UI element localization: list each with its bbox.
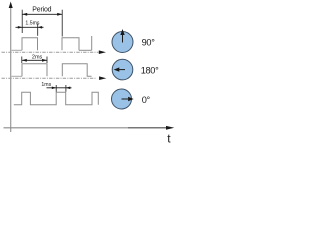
svg-text:1ms: 1ms bbox=[41, 82, 51, 88]
Period dimension left arrowhead bbox=[22, 13, 27, 16]
circle 2 needle shaft bbox=[117, 69, 125, 71]
1ms left tick bbox=[55, 85, 57, 92]
waveform 3 trace bbox=[14, 92, 99, 105]
Period dimension right tick bbox=[61, 10, 63, 37]
servo dial circle 3 (0 deg) bbox=[112, 89, 132, 109]
svg-text:90°: 90° bbox=[142, 38, 156, 48]
2ms dimension line bbox=[22, 59, 47, 61]
waveform 2 pulse 2 bbox=[62, 64, 91, 77]
waveform 1 centre dash-dot line bbox=[2, 51, 99, 53]
x-axis right segment bbox=[128, 127, 167, 129]
x-axis bbox=[4, 127, 129, 129]
circle 1 needle arrowhead bbox=[120, 29, 124, 35]
waveform 1 axis arrowhead bbox=[99, 50, 106, 54]
Period dimension right arrowhead bbox=[57, 13, 62, 16]
2ms dimension left tick bbox=[21, 57, 23, 64]
1.5ms dimension line bbox=[16, 26, 44, 28]
waveform 1 lead-in baseline bbox=[12, 49, 23, 51]
1ms dimension right arrowhead (points left) bbox=[66, 87, 70, 90]
waveform 2 axis arrowhead bbox=[99, 76, 106, 80]
Period dimension left tick bbox=[21, 10, 23, 33]
svg-text:Period: Period bbox=[32, 6, 51, 13]
1.5ms dimension right arrowhead (points left) bbox=[38, 26, 42, 29]
circle 1 needle shaft bbox=[122, 34, 124, 43]
circle 3 needle arrowhead bbox=[128, 97, 134, 101]
servo dial circle 1 (90 deg) bbox=[112, 32, 133, 53]
waveform 2 lead-in baseline bbox=[12, 75, 23, 77]
2ms dimension right tick bbox=[46, 57, 48, 64]
1.5ms dimension left arrowhead (points right) bbox=[18, 26, 22, 29]
1ms dimension line bbox=[47, 87, 72, 89]
servo dial circle 2 (180 deg) bbox=[112, 59, 133, 80]
circle 2 needle arrowhead bbox=[114, 67, 120, 71]
1.5ms right tick bbox=[37, 24, 39, 36]
waveform 1 baseline stub after pulse 2 bbox=[79, 49, 92, 51]
Period dimension line bbox=[22, 13, 62, 15]
y-axis bbox=[10, 6, 12, 132]
waveform 1 partial third pulse rising edge bbox=[91, 36, 93, 50]
y-axis arrowhead bbox=[9, 2, 13, 9]
svg-text:1.5ms: 1.5ms bbox=[25, 20, 40, 26]
2ms dimension left arrowhead bbox=[22, 59, 27, 62]
svg-text:180°: 180° bbox=[141, 65, 159, 75]
waveform 2 pulse 1 (2ms) bbox=[22, 64, 47, 77]
1ms right tick bbox=[65, 85, 67, 92]
2ms dimension right arrowhead bbox=[42, 59, 47, 62]
waveform 1 pulse 2 bbox=[62, 38, 79, 51]
1ms dimension left arrowhead (points right) bbox=[52, 87, 56, 90]
waveform 1 pulse 1 (1.5ms) bbox=[22, 38, 38, 51]
circle 3 needle shaft bbox=[122, 98, 129, 100]
waveform 2 centre dash-dot line bbox=[2, 77, 97, 79]
svg-text:0°: 0° bbox=[142, 95, 151, 105]
svg-text:2ms: 2ms bbox=[32, 54, 43, 60]
x-axis arrowhead bbox=[166, 126, 174, 130]
